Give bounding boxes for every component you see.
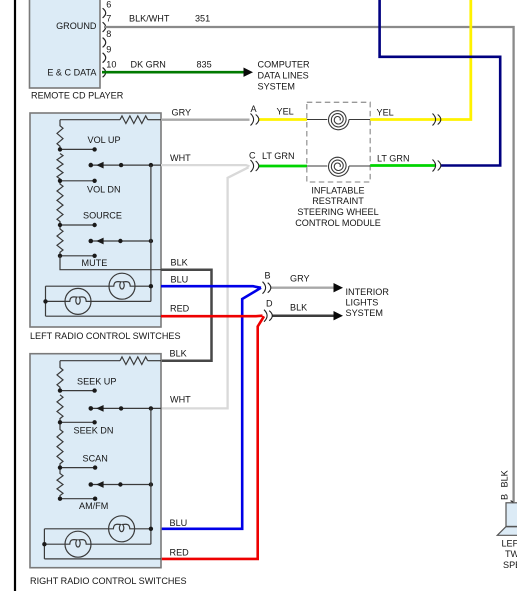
wiper 1 left box [89,162,162,169]
svg-text:A: A [251,104,258,114]
svg-text:BLK: BLK [290,303,307,313]
svg-text:DK GRN: DK GRN [131,60,166,70]
svg-text:STEERING WHEEL: STEERING WHEEL [297,207,378,217]
svg-text:SYSTEM: SYSTEM [346,308,383,318]
label BLU left box [171,275,189,285]
arrow to computer data lines system [244,68,254,77]
connector B [263,271,271,294]
switch body LEFT RADIO CONTROL SWITCHES [30,113,161,327]
svg-text:VOL UP: VOL UP [88,135,121,145]
tap AM/FM [58,497,98,501]
label WHT right box [170,395,191,405]
tap SCAN [58,465,98,469]
svg-text:COMPUTER: COMPUTER [258,60,310,70]
lamp L1 left box [109,273,135,299]
svg-text:YEL: YEL [277,107,294,117]
svg-text:GRY: GRY [290,274,310,284]
svg-text:9: 9 [106,44,111,54]
svg-text:WHT: WHT [170,395,191,405]
label BLK/WHT [129,13,170,23]
svg-text:TWEETER: TWEETER [505,549,517,559]
caption LEFT TWEETER SPEAKER [502,539,517,571]
svg-text:C: C [249,151,256,161]
wire GRY to interior lights [271,287,334,289]
wire YEL up to top [441,0,471,120]
wire RED from right box [161,316,264,559]
arrow interior lights 1 [334,283,344,292]
switch body RIGHT RADIO CONTROL SWITCHES [30,354,161,568]
wire LT GRN into module [259,165,308,168]
wire BLU from left box [161,286,261,288]
svg-text:WHT: WHT [170,153,191,163]
svg-text:AM/FM: AM/FM [79,501,108,511]
caption REMOTE CD PLAYER [31,91,124,101]
label RED right box [170,547,190,557]
label 835 [197,60,212,70]
svg-text:GRY: GRY [172,107,192,117]
label AM/FM [79,501,108,511]
svg-text:B: B [499,494,509,500]
pin 6 arc [103,8,106,18]
module box dashed [307,102,370,182]
label SEEK UP [77,377,116,387]
pin 7 number [106,13,111,23]
label DK GRN [131,60,166,70]
label YEL left [277,107,294,117]
svg-text:SOURCE: SOURCE [83,211,122,221]
label YEL right [377,108,394,118]
box REMOTE CD PLAYER [30,0,101,88]
wire BLK to interior lights [272,314,334,317]
lamp L4 right box [65,531,91,557]
pin 7 arc [103,22,106,32]
lamp loop wiring left box [46,286,162,316]
lamp L2 left box [65,288,91,314]
svg-text:BLK: BLK [499,470,509,487]
svg-text:10: 10 [106,60,116,70]
wire DK BLU loop top [380,0,501,166]
svg-text:BLK: BLK [170,348,187,358]
svg-text:RIGHT RADIO CONTROL SWITCHES: RIGHT RADIO CONTROL SWITCHES [30,576,187,586]
label GRY [172,107,192,117]
svg-text:SEEK DN: SEEK DN [74,425,114,435]
svg-text:YEL: YEL [377,108,394,118]
wire GRY from left box [161,119,250,121]
arrow interior lights 2 [334,311,344,320]
svg-text:CONTROL MODULE: CONTROL MODULE [295,218,381,228]
wire BLK between switch boxes [161,270,212,361]
label E &amp; C DATA [47,68,97,78]
caption RIGHT RADIO CONTROL SWITCHES [30,576,187,586]
wiper 1 right box [89,405,162,412]
resistor chain left box [57,120,63,256]
pin 9 number [106,44,111,54]
label GROUND [56,21,97,31]
pin 9 arc [103,53,106,63]
svg-text:RED: RED [170,547,190,557]
tap SOURCE [58,223,97,227]
svg-text:LT GRN: LT GRN [377,153,410,163]
svg-text:BLU: BLU [170,518,188,528]
pin 10 arc [103,68,106,78]
svg-text:SPEAKER: SPEAKER [503,560,517,570]
resistor chain right box [57,361,63,499]
label BLU right box [170,518,188,528]
clockspring coil 2 lead [307,165,370,167]
connector A [251,104,259,126]
label BLK vertical at speaker [499,470,509,487]
wiper 2 right box [89,481,154,488]
label COMPUTER DATA LINES SYSTEM [258,60,310,92]
svg-text:SEEK UP: SEEK UP [77,377,116,387]
svg-text:B: B [265,271,271,281]
lamp loop wiring right box [44,529,161,559]
label pin B vertical at speaker [499,494,509,500]
lamp L3 right box [109,516,135,542]
label GRY interior [290,274,310,284]
wire LT GRN module to connector [370,164,435,167]
label BLK interior [290,303,307,313]
label SEEK DN [74,425,114,435]
label BLK left box [171,258,188,268]
svg-text:835: 835 [197,60,212,70]
tap SEEK UP [58,388,97,392]
svg-text:351: 351 [195,13,210,23]
label BLK right box [170,348,187,358]
wire WHT from left box [161,165,250,166]
tap VOL DN [58,179,97,183]
pin 6 number [106,0,111,9]
svg-text:RESTRAINT: RESTRAINT [312,196,364,206]
clockspring coil 1 lead [307,119,370,121]
svg-text:BLU: BLU [171,275,189,285]
clockspring coil 1 [329,111,350,130]
pin 10 number [106,60,116,70]
wire YEL into module [259,118,308,121]
left page border [14,0,16,591]
svg-text:RED: RED [170,304,190,314]
label MUTE [82,258,108,268]
label WHT left box [170,153,191,163]
wire DK GRN 835 from pin 10 [102,71,244,74]
tap SEEK DN [58,420,97,424]
speaker LEFT TWEETER body [497,503,517,536]
pin 8 number [106,29,111,39]
label INTERIOR LIGHTS SYSTEM [346,287,390,318]
wire RED from left box [161,314,263,317]
svg-text:INFLATABLE: INFLATABLE [311,185,364,195]
svg-text:SCAN: SCAN [83,453,108,463]
svg-text:GROUND: GROUND [56,21,97,31]
label LT GRN right [377,153,410,163]
wire BLU from right box [161,288,261,529]
label VOL UP [88,135,121,145]
svg-text:SYSTEM: SYSTEM [258,82,295,92]
label SCAN [83,453,108,463]
svg-text:LEFT RADIO CONTROL SWITCHES: LEFT RADIO CONTROL SWITCHES [30,331,181,341]
svg-text:REMOTE CD PLAYER: REMOTE CD PLAYER [31,91,124,101]
wiper 2 left box [89,238,154,245]
svg-text:BLK: BLK [171,258,188,268]
wiper bus left box [150,165,152,286]
tap MUTE [58,254,97,258]
label RED left box [170,304,190,314]
svg-text:INTERIOR: INTERIOR [346,287,390,297]
top wire with resistor R-top-right [60,357,161,365]
wire BLK/WHT 351 from pin 7 to left front tweeter [104,27,514,502]
svg-text:E & C DATA: E & C DATA [47,68,97,78]
svg-text:LEFT: LEFT [502,539,517,549]
caption INFLATABLE RESTRAINT STEERING WHEEL CONTROL MODULE [295,185,381,228]
label VOL DN [87,184,121,194]
connector LT GRN right [433,160,441,172]
wiper bus right box [150,408,152,528]
svg-text:VOL DN: VOL DN [87,184,121,194]
label LT GRN left [262,151,295,161]
svg-text:BLK/WHT: BLK/WHT [129,13,170,23]
caption LEFT RADIO CONTROL SWITCHES [30,331,181,341]
svg-text:D: D [266,298,273,308]
svg-text:LIGHTS: LIGHTS [346,297,379,307]
svg-text:LT GRN: LT GRN [262,151,295,161]
junction dots left box lamps [43,284,153,304]
top wire with resistor R-top-left [60,116,161,124]
svg-text:7: 7 [106,13,111,23]
connector D [264,298,273,321]
pin 8 arc [103,38,106,48]
svg-text:8: 8 [106,29,111,39]
connector C [249,151,259,173]
svg-text:DATA LINES: DATA LINES [258,71,309,81]
junction dots right box lamps [42,527,153,547]
svg-text:MUTE: MUTE [82,258,108,268]
speaker pin arc [511,501,515,509]
wire YEL module to connector [370,118,441,121]
chain drop to BLK exit [60,256,161,270]
tap VOL UP [58,147,97,151]
svg-text:6: 6 [106,0,111,9]
clockspring coil 2 [329,157,350,176]
connector YEL right [433,114,441,126]
wire WHT from right box [161,167,249,408]
label SOURCE [83,211,122,221]
label 351 [195,13,210,23]
